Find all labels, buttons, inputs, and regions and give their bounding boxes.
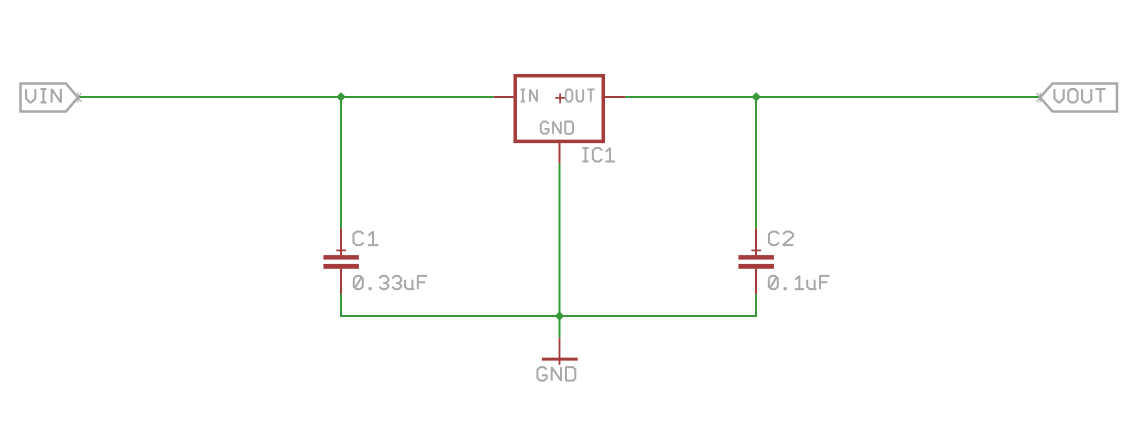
node VIN text label [26, 89, 61, 102]
node VOUT text label [1054, 89, 1105, 102]
capacitor C1 plus polarity tick [336, 249, 346, 251]
ground symbol label GND [537, 367, 575, 381]
junction node VIN net / C1 [336, 92, 345, 101]
VIN flag pin-end cross marker [74, 92, 81, 102]
capacitor C2 bottom lead [755, 269, 757, 294]
capacitor C2 value label 0.1uF [769, 276, 830, 289]
wire C1 top branch from VIN net [340, 96, 342, 228]
IC1 plus mark on OUT pin [555, 93, 565, 103]
ground symbol bar [542, 358, 578, 361]
wire ground bus to GND symbol [559, 316, 561, 338]
junction node ground bus / GND [555, 311, 564, 320]
ground symbol lead [559, 338, 561, 365]
wire IC1 GND pin down to ground bus [559, 163, 561, 316]
IC1 pin name GND [541, 122, 573, 134]
op-amp/regulator IC1 body outline [515, 76, 603, 142]
IC1 pin name IN [521, 89, 537, 101]
capacitor C1 top plate [323, 255, 359, 260]
capacitor C1 bottom plate [323, 264, 359, 269]
capacitor C2 plus polarity tick [751, 249, 761, 251]
IC1 pin IN stub [494, 96, 514, 98]
node VOUT supply flag outline [1040, 84, 1117, 112]
wire C2 bottom lead to ground bus [755, 294, 757, 317]
IC1 pin GND stub [559, 142, 561, 164]
wire VOUT net: IC1 OUT pin to VOUT flag tip [625, 96, 1041, 98]
capacitor C2 bottom plate [738, 264, 774, 269]
VOUT flag pin-end cross marker [1037, 92, 1044, 102]
capacitor C1 name label [353, 232, 378, 246]
IC1 pin OUT stub [605, 96, 625, 98]
wire C1 bottom lead to ground bus [340, 294, 342, 317]
capacitor C1 bottom lead [340, 269, 342, 294]
junction node VOUT net / C2 [752, 92, 761, 101]
wire C2 top branch from VOUT net [755, 96, 757, 228]
capacitor C2 top lead [755, 228, 757, 255]
capacitor C1 top lead [340, 228, 342, 255]
wire VIN net: flag tip to IC1 IN pin [77, 96, 494, 98]
IC1 reference designator label [583, 148, 615, 162]
capacitor C2 name label [769, 232, 793, 246]
capacitor C1 value label 0.33uF [354, 276, 427, 289]
wire ground bus horizontal [340, 315, 757, 317]
node VIN supply flag outline [21, 84, 79, 112]
capacitor C2 top plate [738, 255, 774, 260]
IC1 pin name OUT [566, 89, 595, 101]
